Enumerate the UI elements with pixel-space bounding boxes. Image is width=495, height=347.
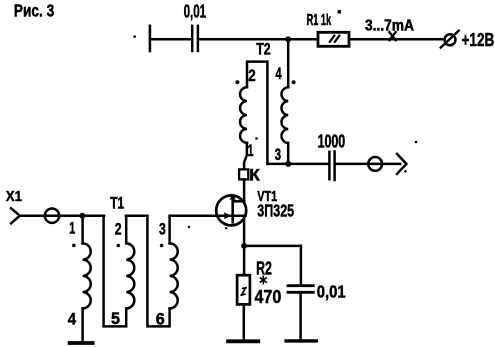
T2 polarity dots — [235, 80, 239, 84]
ground T1 pin4 — [70, 341, 93, 345]
gate wire from T1 — [170, 214, 246, 217]
wire pin 3 — [287, 143, 290, 164]
transistor VT1 — [216, 195, 246, 225]
T1 winding 1-4 — [81, 216, 84, 244]
wire tall line A to pin 5 — [104, 216, 127, 327]
asterisk — [260, 276, 266, 283]
svg-text:T2: T2 — [256, 41, 271, 59]
svg-text:3: 3 — [159, 220, 166, 238]
svg-text:Рис. 3: Рис. 3 — [14, 1, 55, 21]
svg-text:2: 2 — [115, 220, 122, 238]
bypass capacitor plates — [288, 284, 313, 287]
svg-text:К: К — [249, 165, 260, 184]
svg-text:0,01: 0,01 — [317, 282, 346, 302]
svg-text:1: 1 — [248, 142, 254, 160]
output capacitor 1000 plates — [328, 152, 331, 179]
supply terminal circle — [445, 34, 456, 45]
svg-text:3: 3 — [275, 146, 281, 164]
node junction input — [79, 213, 85, 219]
output connector circle — [368, 157, 382, 171]
wire source to bypass cap — [244, 245, 301, 248]
wire R2 to ground — [243, 304, 246, 340]
ferrite bead on drain — [239, 169, 248, 179]
source wire — [243, 216, 246, 246]
svg-text:3П325: 3П325 — [257, 201, 294, 221]
node junction T2 out — [285, 161, 291, 167]
svg-text:5: 5 — [111, 310, 120, 328]
specks — [133, 35, 136, 38]
resistor R2 — [237, 275, 250, 304]
node junction source — [241, 243, 247, 249]
wire source to R2 — [243, 246, 246, 275]
capacitor C1 plates — [191, 26, 194, 51]
wire (junction to T2 pin 4) — [287, 39, 290, 87]
current break mark X — [389, 31, 397, 41]
input connector circle — [45, 209, 59, 223]
svg-text:4: 4 — [275, 65, 282, 83]
svg-text:1000: 1000 — [318, 132, 346, 152]
svg-text:6: 6 — [156, 310, 165, 328]
node junction top — [285, 36, 291, 42]
T2 bottom wire to output — [267, 163, 328, 166]
wire pin 1 to bead — [244, 143, 247, 170]
T2 winding 4-3 — [281, 87, 288, 143]
svg-text:3...7mA: 3...7mA — [365, 18, 414, 35]
svg-text:4: 4 — [68, 310, 77, 328]
wire cap to ground — [299, 292, 302, 339]
T2 winding 2-1 — [240, 87, 247, 143]
svg-text:2: 2 — [248, 67, 256, 85]
svg-text:1: 1 — [69, 220, 75, 238]
T1 winding 2-5 — [126, 214, 147, 217]
svg-text:470: 470 — [255, 286, 282, 307]
svg-text:X1: X1 — [6, 189, 22, 205]
wire T2 pin2 bridge — [247, 62, 267, 164]
svg-text:+12В: +12В — [462, 29, 495, 50]
resistor R1 — [318, 32, 349, 46]
wire tall line B to pin 6 — [147, 216, 169, 327]
svg-text:R1 1k: R1 1k — [307, 12, 332, 29]
svg-text:0,01: 0,01 — [184, 1, 207, 21]
wire bead to drain — [243, 179, 246, 201]
ground bypass — [286, 339, 316, 342]
wire — [349, 38, 443, 41]
output wire — [336, 163, 400, 166]
open terminal bar (top rail left end) — [149, 26, 152, 51]
input plug — [11, 208, 20, 223]
output arrow — [397, 154, 406, 174]
wire — [199, 38, 318, 41]
svg-text:T1: T1 — [110, 195, 124, 213]
input wire — [20, 214, 104, 217]
T1 winding 3-6 — [168, 216, 171, 244]
ground R2 — [228, 339, 258, 343]
svg-text:R2: R2 — [256, 257, 272, 278]
wire — [151, 38, 191, 41]
